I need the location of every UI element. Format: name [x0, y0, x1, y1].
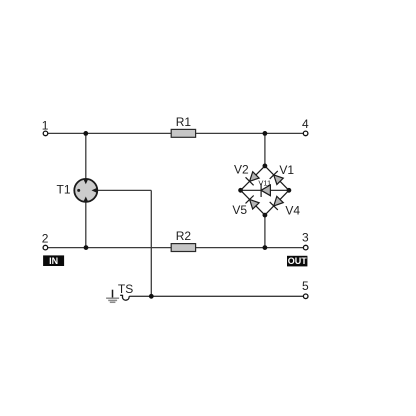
- wire bridge edge bottom-left: [241, 190, 265, 215]
- wire row2: junction C to R2: [86, 247, 171, 249]
- TS disconnect hook: [118, 282, 133, 300]
- svg-text:1: 1: [42, 119, 49, 133]
- svg-text:V1: V1: [279, 163, 294, 177]
- OUT label: [287, 256, 307, 267]
- svg-text:V11: V11: [258, 179, 271, 188]
- diode V1: [270, 171, 284, 185]
- IN label: [43, 255, 64, 266]
- transformer T1: [57, 179, 98, 202]
- wire row2: R2 to junction D: [196, 247, 265, 249]
- node bottom of bridge: [263, 213, 268, 218]
- wire: bridge bottom node down to junction D: [264, 215, 266, 248]
- wire row1: junction A to R1: [86, 132, 171, 134]
- resistor R1: [171, 115, 195, 137]
- terminal 5: [302, 279, 309, 298]
- svg-text:IN: IN: [49, 256, 58, 266]
- junction B: [263, 131, 268, 136]
- wire bridge middle horizontal: [241, 189, 289, 191]
- terminal 2: [42, 231, 49, 250]
- node top of bridge: [263, 164, 268, 169]
- wire: T1 bottom down to junction C: [85, 201, 87, 248]
- svg-text:R1: R1: [176, 115, 192, 129]
- junction D: [263, 245, 268, 250]
- svg-text:TS: TS: [118, 282, 133, 296]
- wire row1: junction B to terminal 4: [265, 132, 303, 134]
- wire row3: hook to terminal 5: [129, 295, 303, 297]
- terminal 1: [42, 119, 49, 136]
- wire bridge edge top-right: [265, 166, 289, 190]
- wire: junction B down to bridge top node: [264, 133, 266, 166]
- wire row1: R1 to junction B: [196, 132, 265, 134]
- svg-text:4: 4: [302, 117, 309, 131]
- svg-text:V2: V2: [234, 162, 249, 176]
- junction A: [83, 131, 88, 136]
- svg-text:T1: T1: [57, 183, 71, 197]
- junction E: [149, 294, 154, 299]
- diode V5: [246, 195, 260, 209]
- wire: junction A down to T1 top: [85, 133, 87, 180]
- wire bridge edge bottom-right: [265, 190, 289, 215]
- svg-text:5: 5: [302, 279, 309, 293]
- wire: T1 right arm to corner: [97, 189, 152, 191]
- terminal 4: [302, 117, 309, 136]
- svg-text:3: 3: [302, 231, 309, 245]
- wire row2: junction D to terminal 3: [265, 247, 304, 249]
- ground: [106, 290, 119, 303]
- node left of bridge: [238, 188, 243, 193]
- wire row2: terminal 2 to junction C: [48, 247, 87, 249]
- terminal 3: [302, 231, 309, 250]
- svg-text:V5: V5: [232, 203, 247, 217]
- svg-text:OUT: OUT: [288, 256, 308, 266]
- junction C: [84, 245, 89, 250]
- svg-text:V4: V4: [285, 204, 300, 218]
- wire: corner down to junction E on row3: [150, 190, 152, 296]
- svg-text:R2: R2: [176, 229, 192, 243]
- svg-text:2: 2: [42, 231, 49, 245]
- wire row1 left: terminal 1 to junction A: [48, 132, 86, 134]
- diode V11: [261, 184, 270, 197]
- diode V4: [270, 195, 284, 209]
- wire bridge edge top-left: [241, 166, 265, 190]
- resistor R2: [171, 229, 195, 251]
- node right of bridge: [287, 188, 292, 193]
- diode V2: [246, 171, 260, 185]
